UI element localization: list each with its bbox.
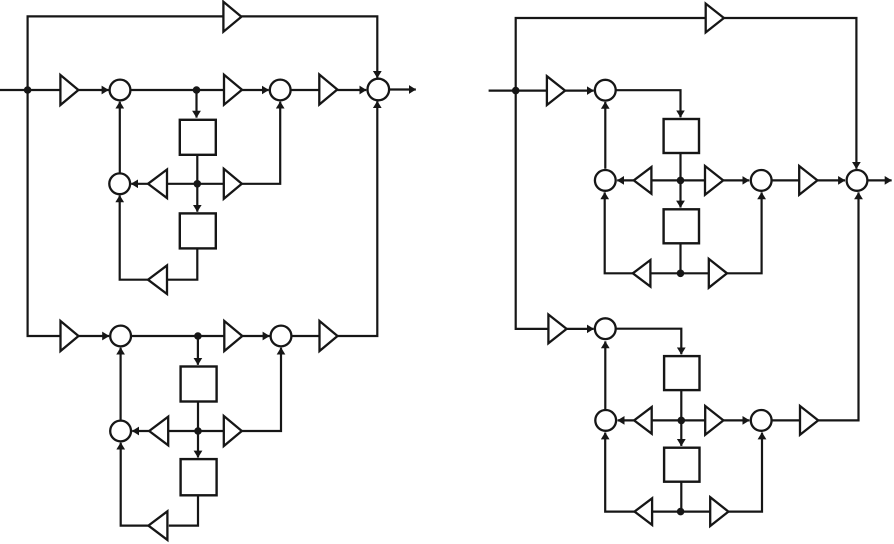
gain H11 (section-4 output gain)	[800, 406, 818, 435]
wire: delay Z8 to junction D8	[680, 482, 682, 511]
delay element Z7 (z^-1)	[664, 356, 699, 390]
gain H3 (feedback)	[634, 167, 652, 194]
wire: D7 right to gain H10 base	[681, 419, 705, 421]
wire: delay Z6 to junction D6	[679, 244, 681, 273]
wire: D8 left to gain H12 base	[653, 511, 682, 513]
gain G10 (section-2 output gain)	[320, 321, 338, 351]
gain H1 (section-3 input gain)	[547, 76, 565, 105]
delay element Z6 (z^-1)	[664, 209, 699, 243]
wire: D5 down into delay Z6	[679, 180, 681, 207]
wire: S5 to gain G9 with tap	[131, 335, 224, 337]
wire: D5 right to gain H4 base	[681, 179, 706, 181]
wire: D5 left to gain H3 base	[651, 179, 680, 181]
summing node S12	[595, 318, 616, 339]
junction dot N1 on input	[24, 86, 32, 94]
summing node S7 (feedback summer)	[110, 421, 131, 442]
wire: tap D3 down into delay Z3	[197, 336, 199, 365]
summing node S11 (right output summer)	[847, 170, 868, 191]
wire: gain H3 into summing node S9	[617, 179, 634, 181]
wire: gain G13 left and up into S7	[121, 443, 149, 526]
gain H5	[799, 166, 817, 195]
wire: gain H4 into summing node S10	[723, 179, 749, 181]
wire: input into gain H1	[489, 89, 547, 91]
wire: gain G8 into summing node S5	[79, 335, 110, 337]
wire: node N2 down to section-4 gain H8	[516, 91, 549, 329]
delay element Z5 (z^-1)	[664, 119, 699, 153]
wire: gain G9 into summing node S6	[242, 335, 269, 337]
wire: delay Z2 down and left to gain G7	[167, 249, 197, 280]
gain H2 (feed-through, top line)	[706, 4, 724, 33]
gain G11 (a1 feedback)	[149, 417, 168, 446]
summing node S1	[110, 80, 131, 101]
summing node S9	[595, 170, 616, 191]
wire: input x(n) into gain G1	[0, 89, 61, 91]
gain G9	[224, 321, 242, 351]
wire: gain G12 up into S6	[242, 348, 281, 431]
wire: gain G7 left and up into S4	[120, 195, 148, 279]
junction dot N2 on right input	[512, 87, 520, 95]
delay element Z1 (z^-1)	[180, 120, 216, 155]
gain H9 (feedback)	[634, 407, 652, 434]
gain H7 (feed-forward 2)	[709, 259, 727, 288]
wire: gain G4 into summing node S3	[337, 89, 366, 91]
wire: tap D1 down into delay Z1	[195, 90, 197, 118]
wire: gain G5 into summing node S4	[131, 183, 148, 185]
wire: output arrow y1(n)	[389, 88, 416, 90]
wire: gain H6 left and up into S9	[605, 192, 633, 273]
wire: S14 to gain H11	[772, 419, 800, 421]
wire: output arrow y2(n)	[867, 179, 891, 181]
gain G8 (section-2 input gain)	[61, 321, 79, 351]
junction dot D2 (middle row)	[194, 180, 202, 188]
wire: gain H12 left and up into S13	[605, 433, 634, 512]
wire: node N1 down to section-2 gain G8	[28, 90, 61, 336]
summing node S3 (section-1 output summer)	[368, 79, 390, 101]
wire: D2 left to gain G5 base	[167, 183, 197, 185]
wire: gain H13 right and up into S14	[728, 433, 762, 512]
summing node S8	[595, 80, 616, 101]
junction dot D5 (middle row)	[677, 177, 685, 185]
wire: S9 up into S8	[604, 102, 606, 169]
delay element Z3 (z^-1)	[181, 367, 217, 402]
gain G7 (a2 feedback)	[148, 265, 167, 294]
gain G3	[224, 75, 242, 105]
wire: S13 up into S12	[604, 341, 606, 409]
wire: gain H7 right and up into S10	[727, 192, 762, 273]
wire: gain G3 into summing node S2	[242, 89, 269, 91]
gain G4	[319, 75, 337, 105]
junction dot D4 (middle row)	[194, 427, 202, 435]
wire: S1 to gain G3 with tap	[130, 89, 224, 91]
junction dot D6 (bottom row)	[677, 270, 685, 278]
wire: gain H9 into summing node S13	[618, 419, 635, 421]
wire: gain H10 into summing node S14	[723, 419, 749, 421]
summing node S14	[751, 410, 772, 431]
wire: gain H5 into output summer S11	[817, 179, 845, 181]
wire: gain H11 right and up into S11	[818, 192, 858, 420]
wire: node N1 up and right to feed-through gain G2	[28, 16, 224, 90]
wire: D7 left to gain H9 base	[652, 419, 682, 421]
wire: delay Z1 to junction D2	[196, 156, 198, 184]
wire: gain G10 right and up into S3	[338, 101, 378, 336]
wire: S6 to gain G10	[291, 335, 319, 337]
wire: delay Z5 to junction D5	[679, 154, 681, 181]
gain G12 (b1 feed-forward)	[224, 416, 242, 446]
wire: D4 right to gain G12 base	[198, 430, 224, 432]
summing node S5	[110, 326, 131, 347]
wire: D4 down into delay Z4	[197, 431, 199, 458]
gain H6 (feedback 2)	[633, 260, 651, 287]
gain H12 (feedback 2)	[635, 498, 653, 525]
wire: gain G2 to summing node S3 (down arrow)	[241, 16, 377, 78]
summing node S10	[751, 170, 772, 191]
summing node S4 (feedback summer)	[109, 173, 130, 194]
gain G13 (a2 feedback)	[148, 511, 167, 540]
wire: S4 up into S1	[119, 102, 121, 173]
wire: D2 right to gain G6 base	[197, 183, 224, 185]
wire: gain H2 to output summer S11 (down arrow)	[724, 18, 857, 169]
wire: delay Z7 to junction D7	[680, 391, 682, 421]
wire: delay Z3 to junction D4	[197, 402, 199, 431]
summing node S2	[270, 80, 291, 101]
delay element Z2 (z^-1)	[180, 213, 216, 248]
wire: node N2 up and right to feed-through gain H2	[516, 18, 706, 91]
wire: D4 left to gain G11 base	[168, 430, 198, 432]
wire: gain G11 into summing node S7	[132, 430, 149, 432]
delay element Z8 (z^-1)	[664, 448, 699, 482]
gain H10 (feed-forward)	[705, 406, 723, 435]
wire: gain G6 up into S2	[242, 102, 280, 184]
gain G1 (section-1 input gain)	[60, 75, 78, 105]
gain H13 (feed-forward 2)	[710, 497, 728, 526]
wire: gain G1 into summing node S1	[78, 89, 108, 91]
wire: D6 left to gain H6 base	[651, 272, 681, 274]
gain H4 (feed-forward)	[705, 166, 723, 195]
wire: gain H1 into summing node S8	[565, 89, 594, 91]
wire: gain H8 into summing node S12	[567, 328, 594, 330]
wire: S12 right and down into delay Z7	[616, 329, 682, 355]
summing node S13	[595, 410, 616, 431]
wire: delay Z4 down and left to gain G13	[169, 496, 198, 526]
gain G6 (b1 feed-forward)	[224, 169, 242, 199]
wire: D2 down into delay Z2	[196, 184, 198, 212]
wire: D6 right to gain H7 base	[681, 272, 709, 274]
gain G5 (a1 feedback)	[148, 170, 167, 199]
junction dot D3 (tap to delay Z3)	[194, 332, 202, 340]
wire: S10 to gain H5	[772, 179, 800, 181]
wire: S2 to gain G4	[291, 89, 320, 91]
wire: S8 right and down into delay Z5	[616, 90, 681, 117]
summing node S6	[271, 326, 292, 347]
junction dot D1 (tap to first delay)	[193, 86, 201, 94]
gain H8 (section-4 input gain)	[548, 315, 566, 344]
wire: D7 down into delay Z8	[680, 420, 682, 446]
junction dot D8 (bottom row)	[677, 508, 685, 516]
wire: D8 right to gain H13 base	[681, 511, 710, 513]
delay element Z4 (z^-1)	[181, 459, 217, 495]
junction dot D7 (middle row)	[678, 417, 686, 425]
gain G2 (feed-through, top line)	[223, 2, 241, 32]
wire: S7 up into S5	[119, 348, 121, 421]
